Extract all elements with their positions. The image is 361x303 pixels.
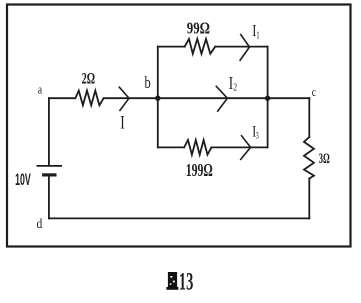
svg-text:199Ω: 199Ω [186,160,213,180]
wire bottom branch left [158,146,184,148]
wire resistor to node b [104,97,158,99]
wire vertical at c side [267,47,269,148]
battery 10V long plate [37,165,61,167]
resistor 199ohm zigzag [184,140,211,155]
svg-text:99Ω: 99Ω [187,19,210,38]
wire c to right corner [268,97,310,99]
wire top branch left [158,46,185,48]
node c junction dot [265,96,270,101]
node b junction dot [155,96,160,101]
wire 3ohm down to bottom [308,179,310,219]
svg-text:1: 1 [256,31,259,42]
caption tu glyph (Chinese 'figure') [166,272,178,290]
arrow current I1 [240,35,249,61]
wire vertical at b (top branch to bottom branch) [157,47,159,148]
svg-text:2Ω: 2Ω [82,70,96,87]
svg-text:b: b [145,73,151,92]
battery 10V short plate [44,173,55,176]
svg-text:c: c [312,84,316,99]
wire bottom branch right [211,146,267,148]
arrow current I [119,87,129,110]
svg-text:13: 13 [179,269,193,296]
svg-text:2: 2 [233,83,237,94]
resistor 99ohm zigzag [185,39,216,54]
wire right side down to 3ohm [308,98,310,137]
svg-text:a: a [38,81,42,96]
svg-text:3: 3 [256,131,259,141]
wire battery to d corner [48,176,50,218]
resistor 2ohm zigzag [75,91,103,106]
svg-text:10V: 10V [15,170,31,189]
svg-text:I: I [120,113,125,134]
arrow current I2 [216,86,227,111]
svg-text:3Ω: 3Ω [319,151,330,167]
wire bottom d to right corner [49,217,309,219]
wire left vertical a to battery [48,98,50,165]
wire top branch right [215,46,267,48]
arrow current I3 [241,136,251,160]
wire a to resistor 2ohm [49,97,75,99]
wire middle branch b to c [158,97,268,99]
resistor 3ohm zigzag [304,137,314,179]
svg-text:d: d [37,217,43,232]
